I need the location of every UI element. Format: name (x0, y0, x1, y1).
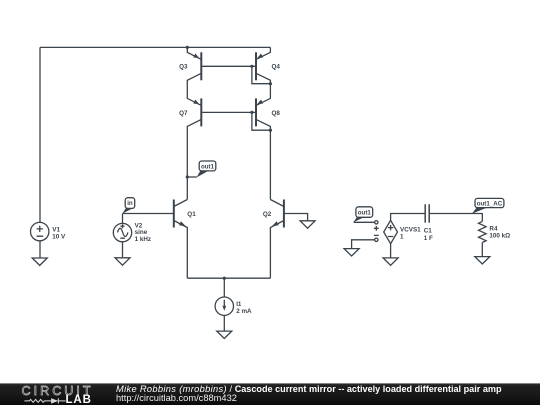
svg-text:1 F: 1 F (424, 235, 433, 242)
svg-text:V1: V1 (52, 226, 60, 233)
svg-text:LAB: LAB (66, 394, 92, 405)
svg-text:C1: C1 (424, 227, 433, 234)
svg-text:1: 1 (400, 234, 404, 241)
svg-text:100 kΩ: 100 kΩ (489, 233, 510, 240)
svg-text:1 kHz: 1 kHz (135, 236, 151, 243)
svg-text:R4: R4 (489, 225, 498, 232)
svg-text:Q3: Q3 (179, 63, 188, 70)
svg-text:out1: out1 (358, 210, 372, 217)
svg-text:Q7: Q7 (179, 110, 188, 117)
svg-text:in: in (127, 200, 133, 207)
svg-text:Q8: Q8 (272, 110, 281, 117)
svg-text:Q2: Q2 (263, 211, 272, 218)
svg-text:http://circuitlab.com/c88m432: http://circuitlab.com/c88m432 (116, 393, 237, 403)
svg-text:out1: out1 (201, 163, 215, 170)
svg-text:out1_AC: out1_AC (477, 200, 503, 207)
svg-text:Q1: Q1 (187, 211, 196, 218)
svg-text:Q4: Q4 (272, 63, 281, 70)
svg-text:10 V: 10 V (52, 233, 66, 240)
svg-text:2 mA: 2 mA (236, 308, 252, 315)
